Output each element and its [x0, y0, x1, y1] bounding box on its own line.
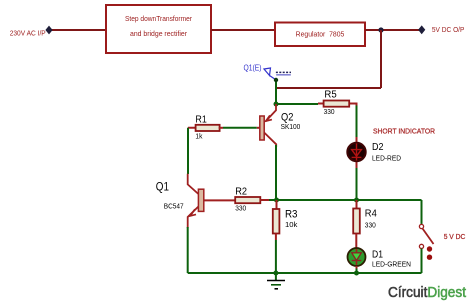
resistor R5 — [318, 90, 357, 116]
terminal 230V AC I/P — [45, 26, 52, 35]
transistor Q1 BC547 (NPN, mirrored) — [156, 174, 204, 228]
wire regulator to output — [365, 29, 422, 31]
junction ground rail / R3 / ground — [273, 271, 278, 276]
wire D1 to ground rail — [356, 269, 358, 274]
resistor R2 — [235, 187, 269, 213]
svg-text:BC547: BC547 — [164, 202, 184, 211]
svg-text:5 V DC: 5 V DC — [444, 232, 466, 241]
wire Q1 base to R2 — [204, 199, 235, 201]
wire R5 to D2 — [356, 106, 358, 138]
svg-text:230V AC I/P: 230V AC I/P — [10, 28, 46, 37]
svg-text:5V DC O/P: 5V DC O/P — [432, 25, 465, 34]
wire R1 to Q2 base — [223, 127, 257, 129]
svg-text:330: 330 — [365, 221, 376, 230]
junction Q2 emitter / R5 — [274, 102, 279, 107]
svg-text:330: 330 — [324, 107, 335, 116]
svg-text:Q1(E): Q1(E) — [244, 64, 262, 73]
wire Q1 emitter down to ground rail — [187, 227, 189, 273]
wire mid rail to right — [277, 199, 422, 201]
svg-text:R4: R4 — [365, 209, 377, 220]
svg-text:and bridge rectifier: and bridge rectifier — [130, 29, 187, 38]
resistor R4 — [353, 200, 377, 248]
svg-text:10k: 10k — [285, 220, 298, 229]
wire transformer to regulator — [211, 29, 275, 31]
svg-text:R3: R3 — [285, 209, 298, 221]
resistor R3 — [273, 200, 298, 240]
svg-text:D2: D2 — [372, 142, 384, 153]
terminal 5V DC O/P — [418, 25, 425, 34]
switch 5V DC — [419, 200, 433, 273]
junction on 5V rail — [378, 27, 383, 32]
wire probe node to emitter net — [275, 80, 277, 104]
svg-text:LED-GREEN: LED-GREEN — [372, 260, 411, 269]
junction R2/R3/Q2 — [274, 198, 279, 203]
svg-text:CírcuitDigest: CírcuitDigest — [388, 285, 466, 301]
wire R1 left down to Q1 collector — [187, 128, 189, 174]
LED D1 (green) — [348, 248, 412, 269]
junction mid rail / R4 — [354, 198, 359, 203]
ground symbol — [267, 273, 285, 289]
transformer/rectifier block — [106, 5, 211, 53]
wire 5V rail down — [380, 30, 382, 88]
svg-text:Step downTransformer: Step downTransformer — [125, 14, 192, 23]
svg-text:R5: R5 — [324, 90, 337, 101]
wire R2 to junction — [269, 199, 277, 201]
svg-text:SHORT INDICATOR: SHORT INDICATOR — [373, 126, 435, 135]
ground rail — [188, 272, 422, 274]
svg-text:1k: 1k — [195, 132, 202, 141]
svg-text:330: 330 — [235, 204, 246, 213]
wire 5V rail left to Q2 emitter node — [276, 87, 381, 89]
wire node to R5 — [276, 103, 318, 105]
node probe attach — [274, 78, 278, 82]
svg-text:R2: R2 — [235, 187, 247, 198]
junction ground rail / D1 — [354, 271, 359, 276]
svg-text:SK100: SK100 — [281, 122, 301, 131]
regulator 7805 block — [275, 23, 365, 47]
resistor R1 — [188, 115, 223, 141]
wire 230V AC input to transformer box — [49, 29, 106, 31]
wire R3 to ground rail — [275, 240, 277, 273]
svg-text:LED-RED: LED-RED — [372, 154, 402, 163]
svg-text:Q1: Q1 — [156, 182, 169, 194]
wire D2 to mid rail — [356, 168, 358, 200]
svg-text:R1: R1 — [195, 115, 207, 126]
transistor Q2 SK100 (PNP) — [257, 104, 301, 147]
wire Q2 collector down — [275, 145, 277, 200]
svg-text:Regulator 7805: Regulator 7805 — [296, 30, 345, 39]
LED D2 (red) — [347, 137, 401, 168]
